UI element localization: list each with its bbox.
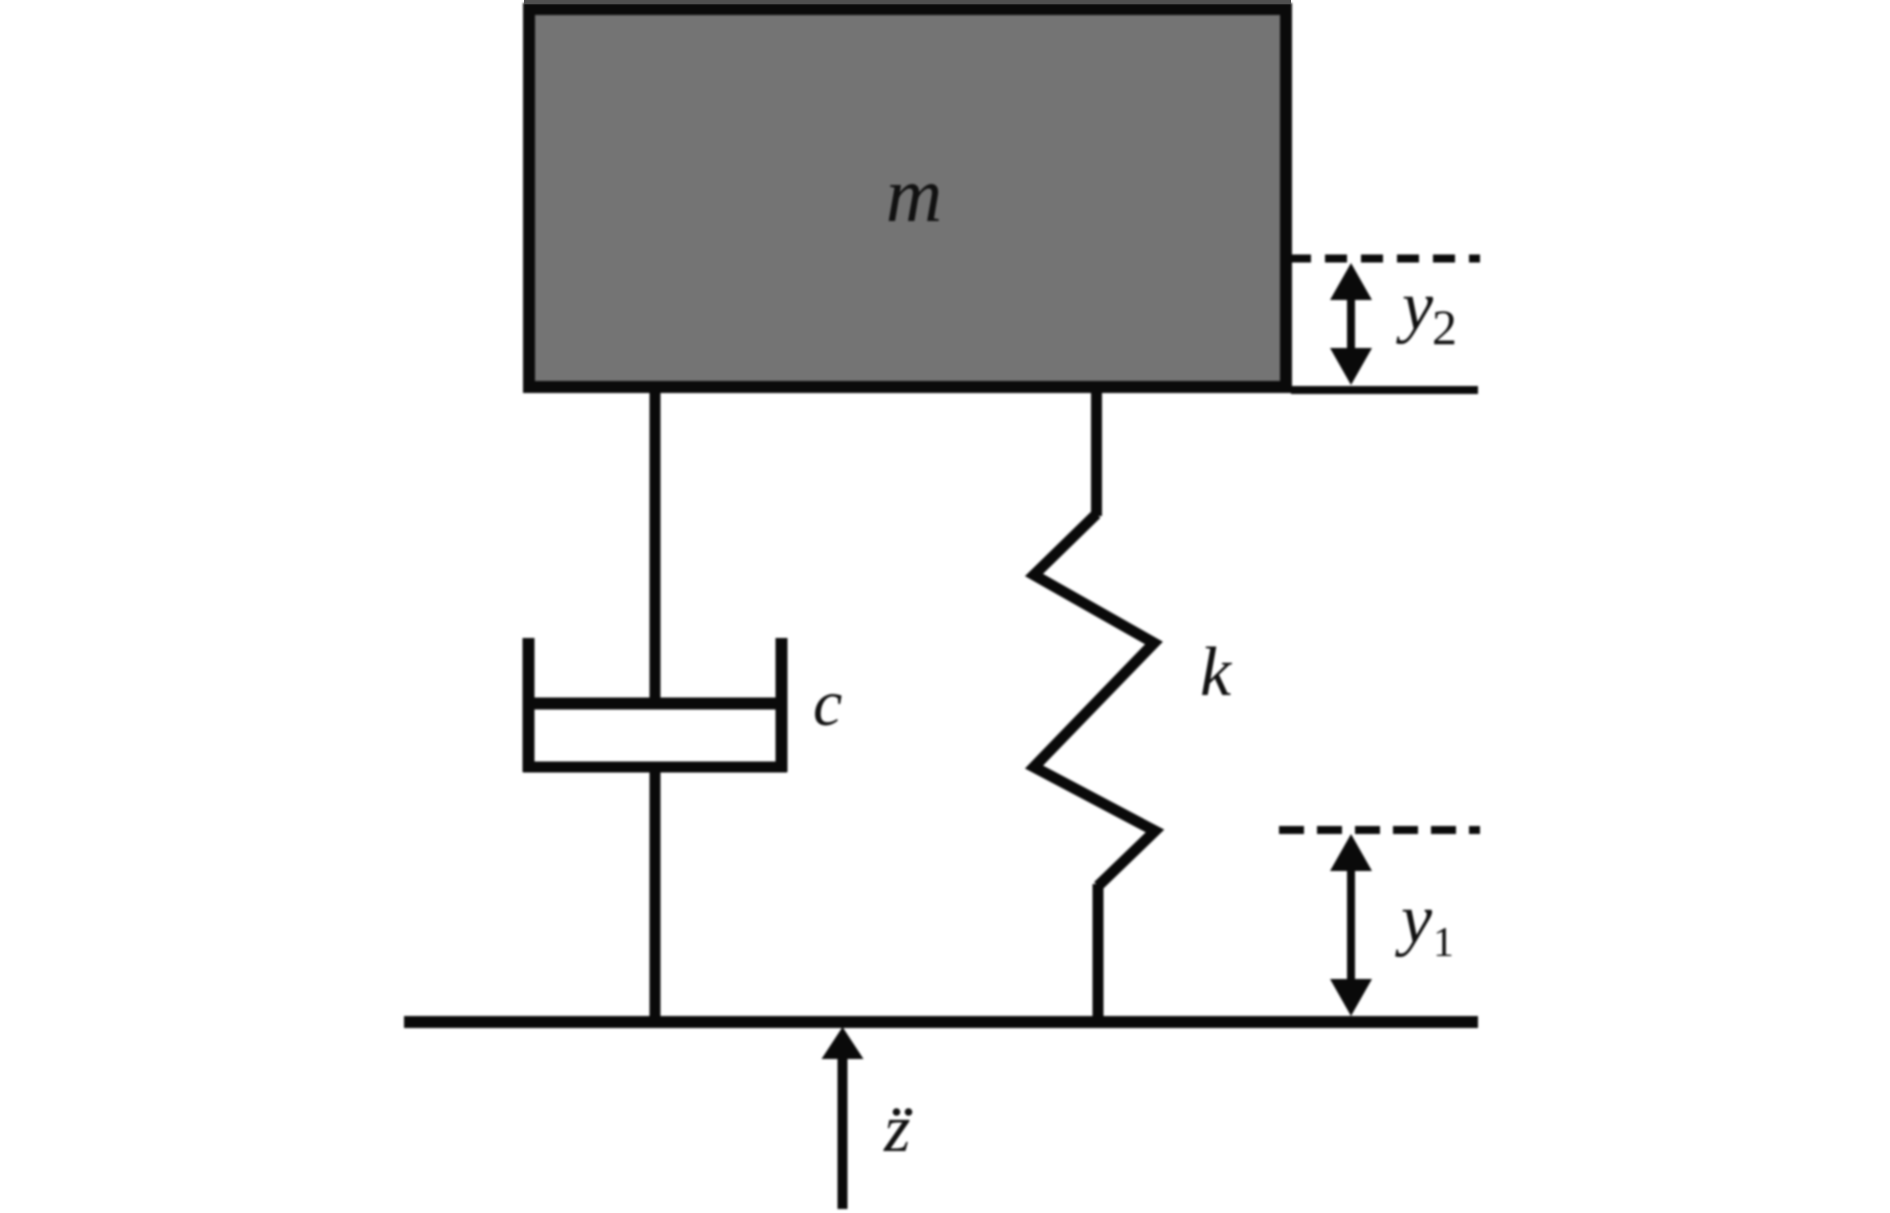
y2 reference dashed line — [1289, 255, 1480, 263]
svg-text:c: c — [813, 667, 842, 740]
y1 reference dashed line — [1279, 826, 1480, 834]
wire spring upper rod — [1091, 390, 1102, 516]
y1 double arrow — [1330, 834, 1372, 1016]
mass m top edge strip (cropped at image top) — [524, 0, 1291, 4]
damper C cup right wall — [776, 638, 788, 772]
wire damper upper rod — [650, 390, 661, 705]
wire damper lower rod — [650, 767, 661, 1022]
z-ddot input arrow — [822, 1027, 864, 1209]
damper C cup left wall — [523, 638, 535, 772]
svg-text:y: y — [1395, 881, 1433, 958]
y2 baseline solid line — [1291, 386, 1478, 394]
svg-text:m: m — [886, 151, 942, 238]
svg-text:2: 2 — [1432, 299, 1457, 355]
svg-text:k: k — [1200, 634, 1233, 711]
ground base line — [404, 1016, 1478, 1028]
svg-text:1: 1 — [1433, 920, 1454, 966]
y2 double arrow — [1330, 263, 1372, 385]
wire spring lower rod — [1093, 884, 1104, 1022]
spring k zigzag — [1034, 514, 1155, 886]
svg-text:z: z — [883, 1090, 910, 1166]
svg-text:y: y — [1396, 268, 1434, 345]
damper C cup bottom — [523, 762, 787, 773]
damper C piston plate — [523, 698, 787, 710]
mass m (block) — [529, 9, 1286, 387]
